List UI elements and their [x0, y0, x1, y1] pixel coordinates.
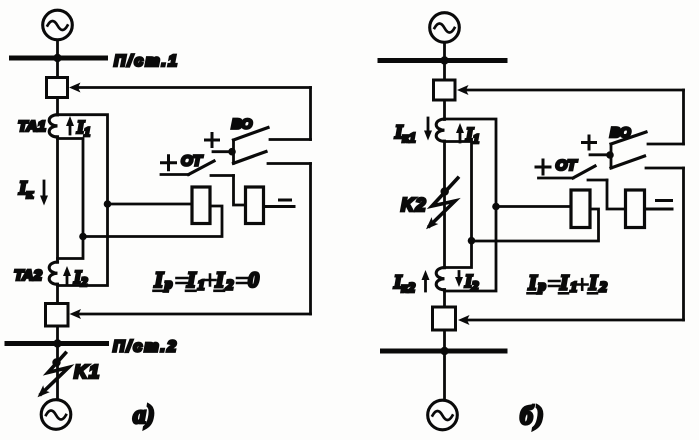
wire return from coil KAr: [472, 209, 599, 241]
wire return from coil KA: [83, 206, 222, 237]
svg-text:I: I: [528, 271, 538, 295]
wire trip to breaker Q3: [466, 89, 684, 92]
plus sign VO right: [583, 136, 596, 149]
arrow Ik down: [43, 181, 46, 198]
contact OT right: [539, 177, 574, 180]
generator G2 left: [41, 400, 71, 430]
contact VO lower right: [611, 156, 645, 168]
wire busbar4 to G4: [443, 351, 446, 400]
busbar bottom right: [383, 349, 506, 354]
node secondary upper right: [492, 203, 500, 211]
relay coil KA right: [571, 190, 590, 228]
wire node to relay coil KA: [108, 203, 193, 206]
wire TA1 secondary bottom lead: [58, 139, 84, 259]
generator G3 right: [430, 13, 460, 43]
svg-text:а): а): [133, 400, 155, 429]
arrow I2r down: [458, 272, 461, 281]
wire G1 to busbar 1: [56, 40, 59, 58]
node busbar4: [440, 347, 448, 355]
wire Q1 to TA1: [56, 98, 59, 116]
svg-text:р: р: [163, 277, 172, 293]
svg-text:П/ст.2: П/ст.2: [113, 339, 176, 356]
node secondary lower: [79, 233, 87, 241]
svg-text:K1: K1: [74, 361, 101, 382]
wire VO stub: [232, 140, 235, 163]
wire node to relay coil KAr: [496, 205, 571, 208]
wire busbar3 to breaker Q3: [443, 61, 446, 81]
wire trip lower vertical right: [682, 168, 685, 320]
plus sign VO: [206, 134, 219, 147]
wire G3 to busbar 3: [443, 43, 446, 61]
DC supply =: [280, 199, 291, 202]
node busbar1: [53, 54, 61, 62]
wire line TA1r to TA2r: [443, 141, 446, 268]
arrow I1 up: [69, 123, 72, 134]
busbar П/ст.2: [7, 341, 107, 346]
wire OT to coil KL right: [607, 180, 626, 209]
wire TA2r to breaker Q4: [443, 290, 446, 308]
breaker Q1 left: [47, 78, 68, 98]
generator G4 right: [428, 400, 458, 430]
generator G1 left: [43, 10, 73, 40]
contact VO upper right: [611, 132, 646, 144]
svg-text:I: I: [186, 267, 197, 292]
busbar top right: [380, 58, 505, 63]
breaker Q4 right: [433, 307, 456, 330]
wire Q4 to busbar 4: [443, 330, 446, 351]
wire trip upper vertical: [309, 88, 312, 140]
svg-text:K2: K2: [401, 195, 427, 215]
svg-text:2: 2: [225, 278, 234, 294]
fault K2 lightning: [430, 178, 458, 226]
wire plus to node VO right: [590, 153, 608, 156]
formula Ip=I1+I2 right: [528, 271, 608, 296]
wire trip to breaker Q2: [79, 313, 311, 316]
wire trip upper vertical right: [682, 90, 685, 144]
wire Q3 to TA1r: [443, 100, 446, 120]
wire trip to breaker Q4: [467, 319, 684, 322]
svg-text:I: I: [559, 271, 569, 295]
svg-text:TA2: TA2: [14, 267, 42, 284]
contact VO lower: [234, 152, 267, 164]
svg-text:б): б): [520, 401, 546, 430]
wire busbar2 to G2: [56, 344, 59, 400]
fault K1 lightning: [41, 353, 69, 394]
svg-text:I: I: [154, 267, 165, 292]
node busbar3: [440, 56, 448, 64]
relay coil KL right: [626, 190, 645, 228]
svg-text:0: 0: [248, 267, 259, 292]
wire TA1r secondary top lead: [445, 119, 497, 291]
busbar П/ст.1: [12, 56, 106, 61]
wire TA1r secondary bottom lead: [445, 142, 472, 268]
CT TA2 winding: [49, 262, 57, 284]
CT TA1 winding: [49, 115, 57, 137]
arrow Ik2 up: [424, 277, 427, 291]
CT TA2 right winding: [436, 268, 444, 290]
wire line TA1 to TA2: [56, 137, 59, 263]
svg-text:1: 1: [570, 280, 578, 296]
arrow I1r up: [459, 130, 462, 142]
wire trip lower vertical: [309, 164, 312, 315]
node VO: [228, 148, 236, 156]
node busbar2: [53, 339, 61, 347]
svg-text:I: I: [588, 271, 598, 295]
wire trip to breaker Q1: [78, 86, 311, 89]
wire coil KL to DC supply: [264, 205, 295, 208]
node VO right: [606, 151, 614, 159]
wire Q2 to busbar 2: [56, 326, 59, 344]
plus sign OT right: [536, 160, 550, 174]
wire plus to node VO: [213, 150, 230, 153]
contact OT: [161, 173, 189, 176]
formula Ip=I1+I2=0: [154, 267, 260, 294]
wire VO stub right: [610, 144, 613, 168]
svg-text:П/ст.1: П/ст.1: [114, 53, 177, 70]
breaker Q3 right: [434, 80, 456, 100]
svg-text:TA1: TA1: [18, 118, 46, 135]
node secondary lower right: [468, 237, 476, 245]
wire OT to coil KL: [234, 176, 246, 206]
svg-text:ОТ: ОТ: [556, 157, 579, 174]
DC supply = right: [657, 199, 672, 202]
svg-text:ВО: ВО: [232, 116, 253, 132]
wire TA2 to breaker Q2: [56, 284, 59, 304]
node secondary upper: [104, 200, 112, 208]
CT TA1 right winding: [436, 119, 444, 141]
arrow I2 up: [66, 273, 69, 284]
wire busbar1 to breaker Q1: [56, 58, 59, 78]
breaker Q2 left: [46, 304, 69, 327]
plus sign OT: [162, 156, 176, 170]
wire coil KLr to DC supply: [645, 208, 673, 211]
svg-text:р: р: [537, 279, 546, 295]
wire TA1 secondary top lead: [58, 115, 108, 286]
svg-text:2: 2: [599, 280, 608, 296]
arrow Ik1 down: [427, 118, 430, 133]
contact VO upper: [234, 128, 269, 141]
relay coil KA left: [192, 187, 210, 224]
relay coil KL left: [246, 187, 264, 224]
